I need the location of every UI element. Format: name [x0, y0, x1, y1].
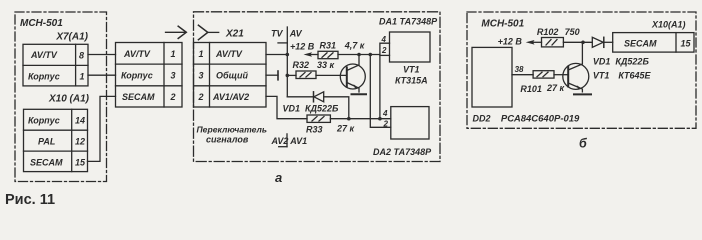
- svg-text:R33: R33: [306, 125, 323, 135]
- X21 table column divider: [209, 43, 211, 108]
- wire vertical AV/TV control riser: [286, 27, 288, 97]
- wire R33 to DA pins net: [330, 118, 390, 120]
- svg-text:SECAM: SECAM: [30, 157, 63, 167]
- wire X7 pin1 to middle table Корпус: [88, 74, 116, 76]
- svg-text:DA1 ТА7348Р: DA1 ТА7348Р: [379, 17, 438, 27]
- middle table column divider: [163, 43, 165, 108]
- svg-text:SECAM: SECAM: [624, 39, 657, 49]
- svg-text:VT1: VT1: [593, 71, 610, 81]
- transistor VT1 circle: [340, 64, 365, 89]
- middle table row divider 2: [116, 85, 183, 87]
- svg-text:2: 2: [383, 120, 389, 129]
- resistor R101: [533, 71, 554, 78]
- connector table X7: outline: [23, 44, 88, 86]
- +12V supply arrow right: [526, 40, 535, 45]
- svg-text:12: 12: [75, 137, 85, 147]
- svg-text:AV: AV: [289, 29, 303, 39]
- junction node collector: [357, 53, 361, 57]
- svg-text:+12 В: +12 В: [290, 42, 315, 52]
- svg-text:1: 1: [80, 72, 85, 82]
- resistor R33: [307, 115, 330, 122]
- svg-text:750: 750: [565, 27, 580, 37]
- svg-text:Х7(А1): Х7(А1): [55, 32, 88, 43]
- svg-text:AV/TV: AV/TV: [215, 49, 243, 59]
- middle table row divider 1: [116, 63, 183, 65]
- DA1 pin stubs: [380, 43, 390, 119]
- svg-text:VT1: VT1: [403, 65, 420, 75]
- svg-text:Х21: Х21: [225, 29, 244, 40]
- transistor VT1 right emitter: [568, 83, 582, 92]
- SECAM table column divider: [675, 33, 677, 53]
- svg-text:8: 8: [79, 51, 84, 61]
- resistor R31: [318, 51, 338, 58]
- svg-text:AV/TV: AV/TV: [123, 49, 151, 59]
- resistor R32: [296, 71, 316, 79]
- flag tick TV/AV: [278, 42, 287, 44]
- svg-text:МСН-501: МСН-501: [481, 19, 524, 30]
- svg-text:Корпус: Корпус: [28, 71, 60, 81]
- svg-text:AV2: AV2: [271, 136, 289, 146]
- connector table X7: row divider: [23, 64, 88, 66]
- svg-text:27 к: 27 к: [546, 83, 565, 93]
- svg-text:DA2 ТА7348Р: DA2 ТА7348Р: [373, 147, 432, 157]
- X21 table row divider 1: [194, 63, 267, 65]
- svg-text:R102: R102: [537, 27, 559, 37]
- svg-text:Переключатель: Переключатель: [197, 125, 267, 135]
- node AV/TV control: wire from X21 pin1 with TV/AV flag riser: [266, 54, 287, 56]
- diode VD1 wire from riser: [287, 96, 313, 98]
- svg-text:R101: R101: [520, 84, 542, 94]
- svg-text:AV1: AV1: [289, 136, 307, 146]
- transistor VT1 right collector: [568, 42, 582, 70]
- connector table X7: column divider: [75, 44, 77, 86]
- svg-text:1: 1: [171, 49, 176, 59]
- svg-text:DD2: DD2: [473, 114, 491, 124]
- connector table X10: column divider: [71, 109, 73, 171]
- transistor VT1 collector: [347, 55, 359, 71]
- label AV2/AV1 flag: [286, 134, 288, 147]
- ground bar (emitter): [352, 93, 367, 95]
- op-amp DA2 box: [391, 107, 429, 139]
- svg-text:б: б: [579, 137, 588, 151]
- svg-text:4: 4: [382, 109, 388, 118]
- connector table X21: outline: [194, 43, 267, 108]
- ground bar right (emitter): [574, 93, 591, 95]
- svg-text:Х10 (А1): Х10 (А1): [48, 94, 90, 105]
- svg-text:1: 1: [199, 49, 204, 59]
- module box MCH-501 (right, dash-dot border): [467, 12, 696, 128]
- wire R32 to base VT1: [316, 74, 347, 76]
- wire riser to R32: [287, 74, 296, 76]
- X21 table row divider 2: [194, 85, 267, 87]
- svg-text:4: 4: [381, 35, 387, 44]
- svg-text:14: 14: [75, 116, 85, 126]
- transistor VT1 right base bar: [567, 67, 569, 87]
- svg-text:R31: R31: [320, 41, 337, 51]
- svg-text:R32: R32: [293, 60, 310, 70]
- resistor R102: [542, 38, 564, 47]
- svg-text:2: 2: [381, 46, 387, 55]
- svg-text:SECAM: SECAM: [122, 92, 155, 102]
- svg-text:4,7 к: 4,7 к: [344, 41, 365, 51]
- svg-text:КТ645Е: КТ645Е: [618, 71, 651, 81]
- svg-text:AV/TV: AV/TV: [30, 50, 58, 60]
- svg-text:КД522Б: КД522Б: [615, 57, 649, 67]
- junction node on riser at R32 branch: [286, 74, 290, 78]
- transistor VT1 right circle: [563, 63, 589, 89]
- svg-text:15: 15: [75, 157, 86, 167]
- svg-text:15: 15: [681, 39, 692, 49]
- module box MCH-501 (left, dash-dot border): [15, 12, 107, 182]
- svg-text:а: а: [275, 170, 282, 185]
- diode VD1 right (pointing right): [592, 37, 603, 47]
- svg-text:AV1/AV2: AV1/AV2: [212, 92, 249, 102]
- transistor VT1 emitter: [347, 83, 359, 93]
- svg-text:Рис. 11: Рис. 11: [5, 192, 55, 207]
- svg-text:Общий: Общий: [216, 71, 248, 81]
- svg-text:Х10(А1): Х10(А1): [651, 20, 686, 30]
- svg-text:КД522Б: КД522Б: [305, 104, 339, 114]
- svg-text:VD1: VD1: [283, 104, 301, 114]
- wire R31 to DA1: [338, 54, 380, 56]
- connector table X10: outline: [24, 109, 88, 171]
- wire diode to SECAM table: [604, 41, 613, 43]
- svg-text:Корпус: Корпус: [121, 71, 153, 81]
- wire X21 pin2 AV1/AV2 down to R33: [266, 96, 307, 118]
- svg-text:PAL: PAL: [38, 137, 55, 147]
- wire to DA2 pin 2: [370, 55, 391, 128]
- svg-text:2: 2: [198, 92, 204, 102]
- IC DD2 box: [472, 47, 512, 107]
- op-amp DA1 box: [390, 32, 431, 62]
- wire R102 to diode: [563, 41, 592, 43]
- svg-text:КТ315А: КТ315А: [395, 76, 428, 86]
- switch unit box (dash-dot border): [194, 12, 441, 162]
- svg-text:38: 38: [515, 65, 524, 74]
- junction node DA2 pin4: [378, 117, 382, 121]
- svg-text:РСА84С640Р-019: РСА84С640Р-019: [501, 114, 580, 125]
- wire X7 pin8 to middle table AV/TV: [88, 54, 116, 56]
- connector table X10: row divider 1: [24, 129, 88, 131]
- connector table X10: row divider 2: [24, 150, 88, 152]
- wire DD2 pin38 to R101: [512, 74, 533, 76]
- junction node DA2 pin2 branch: [369, 53, 373, 57]
- svg-text:3: 3: [171, 71, 176, 81]
- connector table SECAM right: outline: [613, 33, 694, 53]
- svg-text:33 к: 33 к: [317, 60, 335, 70]
- diode VD1 (pointing left): [313, 92, 315, 102]
- svg-text:27 к: 27 к: [336, 124, 355, 134]
- svg-text:сигналов: сигналов: [206, 135, 249, 145]
- middle connector table: outline: [116, 43, 183, 108]
- wire VD1 anode to R33 net: [324, 97, 349, 119]
- junction node on riser at pin1 wire: [286, 53, 290, 57]
- transistor VT1 base bar: [346, 67, 348, 86]
- svg-text:2: 2: [170, 92, 176, 102]
- +12V supply arrow: [304, 52, 313, 57]
- svg-text:VD1: VD1: [593, 57, 611, 67]
- connector mating arrow: [166, 31, 187, 33]
- svg-text:МСН-501: МСН-501: [20, 18, 63, 29]
- junction node collector right: [581, 41, 585, 45]
- chassis bar on Общий: [277, 71, 279, 80]
- wire R101 to base VT1 right: [554, 74, 568, 76]
- connector socket symbol X21: [198, 25, 207, 40]
- junction node diode/R33: [347, 117, 351, 121]
- wire X10 pin15 to middle table SECAM: [88, 96, 116, 161]
- svg-text:TV: TV: [271, 29, 283, 39]
- svg-text:3: 3: [199, 71, 204, 81]
- svg-text:Корпус: Корпус: [28, 116, 60, 126]
- wire Общий terminal: [266, 74, 278, 76]
- svg-text:+12 В: +12 В: [498, 37, 523, 47]
